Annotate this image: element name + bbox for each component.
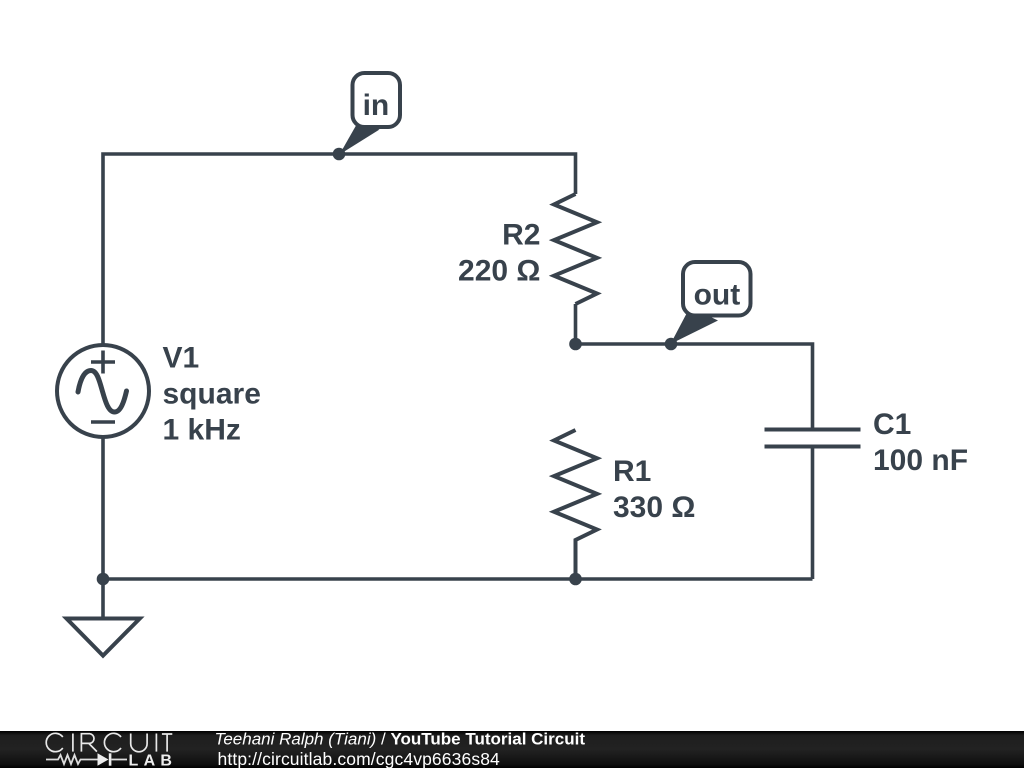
footer bar bbox=[0, 731, 1024, 768]
wire V1 bottom bbox=[101, 437, 105, 579]
resistor R1 bbox=[554, 430, 597, 579]
svg-text:C1: C1 bbox=[873, 408, 911, 441]
svg-text:330 Ω: 330 Ω bbox=[613, 491, 695, 524]
node ground junction bbox=[97, 573, 110, 586]
wire top: V1 to R2 bbox=[103, 154, 576, 345]
logo schematic line bbox=[46, 755, 127, 764]
resistor R2 bbox=[554, 194, 597, 304]
label V1 value bbox=[163, 342, 261, 447]
node flag out bbox=[671, 262, 751, 344]
svg-text:Teehani Ralph (Tiani) / YouTub: Teehani Ralph (Tiani) / YouTube Tutorial… bbox=[215, 729, 586, 748]
wire mid: R2 bottom to C1 top bbox=[576, 304, 813, 430]
logo CIRCUIT wordmark bbox=[46, 733, 172, 751]
svg-text:1 kHz: 1 kHz bbox=[163, 414, 241, 447]
wire ground stub bbox=[101, 579, 105, 619]
svg-text:220 Ω: 220 Ω bbox=[458, 255, 540, 288]
svg-text:R1: R1 bbox=[613, 455, 651, 488]
svg-text:http://circuitlab.com/cgc4vp66: http://circuitlab.com/cgc4vp6636s84 bbox=[218, 749, 501, 768]
wire C1 bottom bbox=[811, 447, 815, 580]
label C1 value bbox=[873, 408, 968, 477]
capacitor C1 bbox=[765, 430, 861, 447]
wire bottom rail bbox=[103, 577, 813, 581]
node R1 bottom junction bbox=[569, 573, 582, 586]
svg-text:V1: V1 bbox=[163, 342, 200, 375]
node out junction bbox=[665, 338, 678, 351]
svg-text:LAB: LAB bbox=[129, 753, 178, 768]
svg-text:in: in bbox=[363, 89, 390, 122]
node R2/R1 junction bbox=[569, 338, 582, 351]
svg-text:square: square bbox=[163, 378, 261, 411]
node in junction bbox=[333, 148, 346, 161]
label R1 value bbox=[613, 455, 695, 524]
voltage source V1 bbox=[57, 345, 149, 437]
svg-text:100 nF: 100 nF bbox=[873, 444, 968, 477]
label R2 value bbox=[458, 219, 540, 288]
logo diode bbox=[98, 753, 112, 765]
ground bbox=[67, 619, 140, 656]
svg-text:R2: R2 bbox=[502, 219, 540, 252]
node flag in bbox=[340, 73, 401, 155]
svg-text:out: out bbox=[694, 279, 741, 312]
